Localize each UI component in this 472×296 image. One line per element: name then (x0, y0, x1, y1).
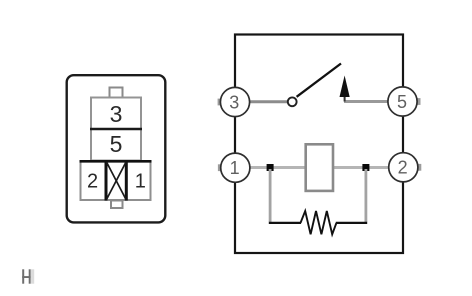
relay internal-circuit box (235, 35, 403, 254)
terminal 3 (220, 87, 249, 116)
connector J1 outline (67, 75, 166, 222)
connector bottom tab (111, 201, 123, 209)
terminal 5 outer lead stub (417, 98, 420, 105)
terminal 3 outer lead stub (218, 99, 221, 106)
resistor branch bottom left wire (269, 222, 301, 224)
terminal 5 (388, 87, 417, 116)
resistor branch bottom right wire (336, 222, 367, 224)
terminal 2 outer lead stub (418, 164, 421, 171)
terminal 1 outer lead stub (218, 164, 221, 171)
svg-text:2: 2 (87, 170, 98, 192)
svg-text:1: 1 (135, 170, 146, 192)
wire arrow to terminal5 (344, 100, 390, 103)
svg-text:5: 5 (110, 131, 123, 157)
resistor branch left drop wire (269, 169, 272, 222)
resistor branch right drop wire (364, 169, 367, 222)
page index letter H (22, 269, 31, 283)
switch pivot (288, 97, 297, 106)
terminal 2 (389, 153, 418, 182)
divider between pin 3 and pin 5 cavities (90, 128, 142, 130)
connector lower block (pins 2 and 1) (81, 162, 151, 201)
terminal 1 (221, 153, 250, 182)
junction node right (362, 164, 369, 171)
svg-text:3: 3 (229, 92, 239, 112)
svg-text:3: 3 (110, 101, 123, 127)
svg-text:2: 2 (398, 158, 408, 178)
relay coil (306, 144, 333, 191)
svg-text:1: 1 (230, 158, 240, 178)
wire terminal1 to terminal2 through coil (249, 166, 389, 169)
lower block top edge (80, 160, 152, 163)
switch travel arrow (340, 76, 350, 102)
connector top tab (110, 88, 123, 98)
resistor R (zigzag) (301, 211, 337, 234)
keyway cell with X (106, 161, 126, 201)
junction node left (267, 164, 274, 171)
connector body for pins 3 and 5 (91, 98, 141, 161)
wire terminal3 to switch pivot (248, 100, 288, 103)
switch blade (open contact) (297, 64, 341, 97)
cursor block after H (31, 269, 34, 283)
svg-text:5: 5 (397, 92, 407, 112)
